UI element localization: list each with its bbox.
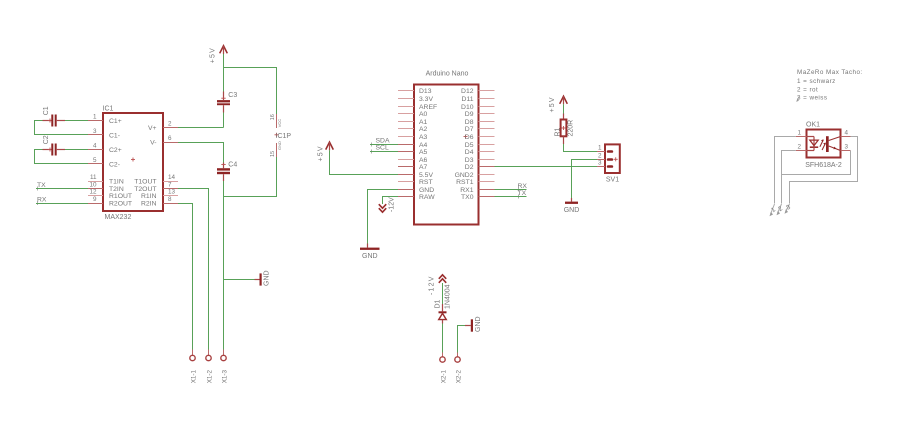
OK1 phototransistor [826, 136, 841, 152]
wire pin8 to X1-1 [178, 204, 193, 350]
wire OK1 pin4 to tap 3 [790, 137, 858, 204]
wire +5V to R1 [563, 104, 565, 113]
note text origin marker [796, 97, 799, 102]
arduino right pin stubs (unconnected) [479, 91, 495, 182]
wire IC1P gnd down and to C4 net [224, 157, 277, 197]
wire +5V down to C3 [223, 54, 225, 92]
svg-text:7: 7 [168, 182, 172, 189]
svg-text:1N4004: 1N4004 [445, 284, 452, 309]
svg-text:TX: TX [37, 182, 46, 189]
pin 9 R2OUT [88, 196, 132, 208]
IC1 origin cross [131, 158, 135, 162]
arduino left pin stubs (connected) [398, 145, 414, 197]
wire SCL to A5 [370, 151, 398, 153]
svg-text:2: 2 [168, 121, 172, 128]
pin 14 T1OUT [134, 174, 178, 186]
svg-text:D2: D2 [465, 164, 474, 171]
power part IC1P pin 15 GND [270, 141, 282, 157]
svg-text:RX1: RX1 [460, 187, 473, 194]
svg-text:9: 9 [93, 196, 97, 203]
pin 12 R1OUT [88, 189, 132, 201]
SV1 pin 2 [597, 153, 613, 161]
svg-text:IC1: IC1 [103, 106, 114, 113]
wire GND pin to ground [368, 190, 399, 244]
capacitor C4 [217, 162, 237, 182]
svg-text:D4: D4 [465, 149, 474, 156]
pad X1-3 [221, 350, 229, 384]
svg-text:OK1: OK1 [806, 122, 820, 129]
svg-text:5: 5 [93, 157, 97, 164]
svg-text:V+: V+ [148, 125, 157, 132]
svg-text:VCC: VCC [277, 119, 282, 128]
wire C4 down to X1-3 [223, 181, 225, 350]
pin 11 T1IN [88, 174, 124, 186]
OK1 pin 1 [796, 130, 807, 137]
svg-text:C4: C4 [228, 162, 237, 169]
supply -12V symbol (D1) [429, 275, 447, 295]
supply +5V symbol (left) [209, 46, 227, 64]
ground symbol GND (SV1) [564, 198, 580, 214]
OK1 internal LED [807, 137, 819, 151]
svg-text:D9: D9 [465, 111, 474, 118]
wire D2 to SV1 pin 3 [495, 166, 598, 168]
net label RX (arduino) [518, 183, 528, 192]
svg-text:AREF: AREF [419, 104, 437, 111]
svg-text:15: 15 [270, 151, 276, 157]
svg-text:A1: A1 [419, 119, 428, 126]
svg-text:A5: A5 [419, 149, 428, 156]
wire +5V branch to IC1P vcc [224, 68, 277, 115]
svg-text:RAW: RAW [419, 194, 435, 201]
pin 13 R1IN [141, 189, 178, 201]
svg-text:C1: C1 [43, 106, 50, 115]
arduino left pin names [419, 88, 437, 201]
wire pin7 to X1-2 [178, 189, 209, 350]
svg-text:D11: D11 [462, 96, 474, 103]
svg-text:GND: GND [419, 187, 434, 194]
svg-text:GND: GND [564, 207, 580, 214]
svg-text:C1-: C1- [109, 133, 120, 140]
wire TX0 stub [495, 196, 527, 198]
svg-text:Arduino Nano: Arduino Nano [426, 71, 469, 78]
net label SDA [372, 138, 390, 147]
net label SCL [372, 145, 389, 154]
SV1 origin cross [614, 157, 618, 161]
tap 3 [785, 204, 793, 214]
OK1 pin 2 [796, 143, 807, 150]
tap 1 [770, 204, 778, 216]
ground symbol GND (arduino) [360, 244, 380, 261]
svg-text:6: 6 [168, 135, 172, 142]
svg-text:SCL: SCL [376, 145, 389, 152]
svg-text:A2: A2 [419, 126, 428, 133]
pad X1-1 [190, 350, 198, 384]
wire OK1 pin3 joins tap 2 net [782, 151, 851, 175]
svg-text:T2OUT: T2OUT [134, 186, 156, 193]
svg-text:+5V: +5V [318, 145, 325, 161]
OK1 pin 3 [841, 143, 851, 150]
wire C3 to V+ [223, 113, 225, 128]
svg-text:2: 2 [598, 153, 602, 160]
svg-text:+5V: +5V [549, 96, 556, 112]
wire V+ row [178, 127, 224, 129]
svg-text:11: 11 [90, 174, 97, 181]
svg-text:RST: RST [419, 179, 433, 186]
pad X1-2 [206, 350, 214, 384]
svg-text:16: 16 [270, 114, 276, 120]
svg-text:T1IN: T1IN [109, 179, 124, 186]
svg-text:C3: C3 [228, 92, 237, 99]
svg-text:X2-1: X2-1 [440, 370, 447, 384]
svg-text:-12V: -12V [429, 275, 436, 295]
svg-text:D7: D7 [465, 126, 474, 133]
capacitor C2 [43, 135, 66, 155]
svg-text:GND2: GND2 [455, 172, 474, 179]
pin 1 C1+ [88, 114, 122, 126]
svg-text:12: 12 [89, 189, 97, 196]
pin 3 C1- [88, 128, 120, 140]
supply -12V symbol (arduino RAW) [379, 197, 396, 212]
wire SDA to A4 [370, 144, 398, 146]
svg-text:V-: V- [150, 140, 156, 147]
svg-text:A7: A7 [419, 164, 428, 171]
wire GND branch [224, 279, 255, 281]
SV1 pin 1 [597, 145, 613, 153]
connector SV1 body [605, 144, 620, 173]
wire R1 to SV1 pin 1 [564, 144, 598, 152]
wire +5V to 5.5V pin [330, 150, 399, 174]
svg-text:8: 8 [168, 196, 172, 203]
svg-text:MAX232: MAX232 [105, 214, 132, 221]
svg-text:T2IN: T2IN [109, 186, 124, 193]
svg-text:A0: A0 [419, 111, 428, 118]
svg-text:D3: D3 [465, 157, 474, 164]
svg-text:13: 13 [168, 189, 176, 196]
svg-text:D12: D12 [461, 88, 474, 95]
svg-text:GND: GND [277, 141, 282, 150]
capacitor C1 [43, 106, 66, 126]
svg-text:3: 3 [845, 143, 849, 150]
svg-text:3: 3 [93, 128, 97, 135]
svg-text:X2-2: X2-2 [455, 370, 462, 384]
svg-text:3 = weiss: 3 = weiss [797, 94, 827, 101]
svg-text:C2+: C2+ [109, 147, 122, 154]
svg-text:A4: A4 [419, 142, 428, 149]
IC Arduino Nano body [414, 85, 479, 225]
optocoupler OK1 body [807, 130, 841, 158]
arduino left pin stubs (unconnected) [398, 91, 414, 182]
svg-text:R1OUT: R1OUT [109, 193, 132, 200]
wire -12V to D1 [442, 283, 444, 304]
svg-text:A3: A3 [419, 134, 428, 141]
wire RX1 stub [495, 189, 527, 191]
svg-text:D13: D13 [419, 88, 432, 95]
svg-text:4: 4 [845, 130, 849, 137]
diode D1 1N4004 [435, 284, 452, 323]
svg-text:C2: C2 [43, 135, 50, 144]
arduino right pin names [455, 88, 474, 201]
OK1 photon arrows [820, 139, 826, 150]
svg-text:X1-1: X1-1 [190, 370, 197, 384]
wire D1 to X2-1 [442, 324, 444, 353]
svg-text:1: 1 [598, 145, 602, 152]
wire SV1 pin 2 to GND [572, 160, 598, 199]
tap 2 [777, 204, 785, 215]
svg-text:IC1P: IC1P [276, 133, 292, 140]
svg-text:D5: D5 [465, 142, 474, 149]
pin 10 T2IN [88, 182, 124, 194]
svg-text:D1: D1 [435, 299, 442, 308]
wire OK1 pin2 to tap 2 [782, 151, 796, 204]
svg-text:D6: D6 [465, 134, 474, 141]
svg-text:A6: A6 [419, 157, 428, 164]
svg-text:-12V: -12V [389, 197, 396, 212]
svg-text:X1-2: X1-2 [206, 370, 213, 384]
supply +5V symbol (arduino) [318, 142, 334, 161]
wire RX to pin9 [36, 203, 88, 205]
wire C1 loop to pin3 [35, 121, 89, 135]
svg-text:1 = schwarz: 1 = schwarz [797, 78, 836, 85]
wire C2 loop to pin5 [35, 150, 89, 164]
svg-text:1: 1 [797, 130, 801, 137]
OK1 pin 4 [841, 130, 851, 137]
svg-text:2: 2 [797, 143, 801, 150]
arduino right pin stubs (connected) [479, 167, 495, 197]
note text MaZeRo Max Tacho [797, 69, 863, 102]
pin 7 T2OUT [134, 182, 178, 194]
power part IC1P pin 16 VCC [270, 114, 282, 128]
pad X2-1 [440, 353, 448, 384]
svg-text:D10: D10 [461, 104, 474, 111]
supply +5V symbol (R1) [549, 96, 568, 112]
svg-text:R2IN: R2IN [141, 201, 157, 208]
svg-text:C1+: C1+ [109, 118, 122, 125]
net label TX [37, 182, 46, 191]
pin 6 V- [150, 135, 178, 147]
resistor R1 [555, 114, 575, 145]
pin 5 C2- [88, 157, 120, 169]
svg-text:1: 1 [93, 114, 97, 121]
svg-text:4: 4 [93, 143, 97, 150]
svg-text:R2OUT: R2OUT [109, 201, 132, 208]
svg-text:3.3V: 3.3V [419, 96, 433, 103]
pin 8 R2IN [141, 196, 178, 208]
capacitor C3 [217, 92, 237, 113]
wire X2-2 to GND [458, 326, 466, 353]
svg-text:MaZeRo Max Tacho:: MaZeRo Max Tacho: [797, 69, 863, 76]
pin 2 V+ [148, 121, 178, 133]
svg-text:SFH618A-2: SFH618A-2 [805, 162, 842, 169]
wire TX to pin10 [36, 188, 88, 190]
ground symbol GND (MAX232) [255, 270, 271, 286]
svg-text:X1-3: X1-3 [221, 370, 228, 384]
SV1 pin 3 [597, 160, 613, 168]
net label TX (arduino) [518, 190, 527, 198]
svg-text:C2-: C2- [109, 162, 120, 169]
pad X2-2 [455, 353, 463, 384]
svg-text:RST1: RST1 [456, 179, 474, 186]
svg-text:5.5V: 5.5V [419, 172, 433, 179]
power part IC1P label [275, 133, 292, 140]
svg-text:R1IN: R1IN [141, 193, 157, 200]
svg-text:10: 10 [89, 182, 97, 189]
svg-text:14: 14 [168, 174, 176, 181]
Arduino origin cross [464, 135, 468, 139]
svg-text:RX: RX [518, 183, 528, 190]
svg-text:GND: GND [475, 316, 482, 332]
svg-text:2 = rot: 2 = rot [797, 86, 818, 93]
wire V- row [178, 143, 224, 163]
net label RX [37, 197, 47, 206]
wire C1 to pin1 [34, 120, 43, 122]
pin 4 C2+ [88, 143, 122, 155]
wire OK1 pin1 to tap 1 [775, 137, 796, 204]
svg-text:SV1: SV1 [606, 177, 619, 184]
svg-text:220R: 220R [568, 120, 575, 137]
svg-text:TX0: TX0 [461, 194, 474, 201]
svg-text:T1OUT: T1OUT [134, 179, 156, 186]
wire C2 to pin4 [34, 149, 43, 151]
IC IC1 MAX232 body [103, 113, 163, 211]
svg-text:GND: GND [362, 253, 378, 260]
svg-text:RX: RX [37, 197, 47, 204]
wire RAW to -12V [383, 197, 399, 205]
svg-text:+5V: +5V [209, 47, 216, 63]
svg-text:3: 3 [598, 160, 602, 167]
svg-text:D8: D8 [465, 119, 474, 126]
svg-text:R1: R1 [555, 127, 562, 136]
svg-text:GND: GND [264, 270, 271, 286]
ground symbol GND (X2-2) [465, 316, 482, 332]
